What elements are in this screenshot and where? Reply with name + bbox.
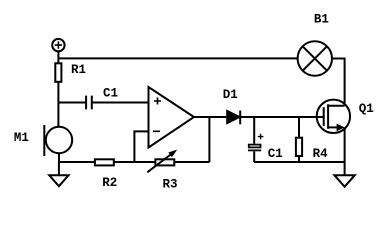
wire [253, 117, 255, 144]
capacitor C1 [86, 86, 118, 109]
wire [254, 161, 345, 163]
svg-text:Q1: Q1 [359, 102, 374, 116]
svg-text:R4: R4 [313, 147, 329, 161]
ground [49, 162, 68, 186]
wire [253, 151, 255, 162]
lamp B1 [298, 13, 332, 76]
wire [194, 116, 227, 118]
resistor R1 [55, 63, 86, 82]
svg-text:R1: R1 [71, 63, 86, 77]
resistor R2 [95, 159, 117, 190]
wire [208, 117, 210, 162]
potentiometer R3 [147, 150, 177, 192]
svg-text:B1: B1 [314, 13, 329, 27]
wire [58, 57, 297, 59]
wire [114, 161, 135, 163]
wire [134, 161, 155, 163]
ground [334, 175, 354, 187]
op-amp U1 [149, 87, 195, 148]
diode D1 [223, 88, 240, 124]
svg-text:M1: M1 [14, 131, 29, 145]
wire [57, 51, 59, 63]
svg-text:R3: R3 [163, 177, 178, 191]
svg-text:C1: C1 [268, 147, 283, 161]
wire [58, 102, 86, 104]
wire [92, 102, 149, 104]
wire [298, 156, 300, 162]
wire [298, 117, 300, 138]
wire [344, 127, 346, 175]
microphone M1 [14, 125, 72, 156]
svg-text:R2: R2 [102, 176, 117, 190]
wire [59, 161, 95, 163]
wire [58, 153, 60, 162]
svg-text:C1: C1 [103, 86, 118, 100]
wire [174, 161, 209, 163]
transistor Q1 [317, 100, 374, 133]
wire [332, 59, 345, 106]
wire [57, 82, 59, 128]
power supply V+ [52, 39, 64, 51]
wire [241, 116, 324, 118]
svg-text:D1: D1 [223, 88, 238, 102]
wire [134, 131, 148, 162]
capacitor C1 (polarized) [248, 134, 283, 161]
resistor R4 [296, 138, 328, 161]
